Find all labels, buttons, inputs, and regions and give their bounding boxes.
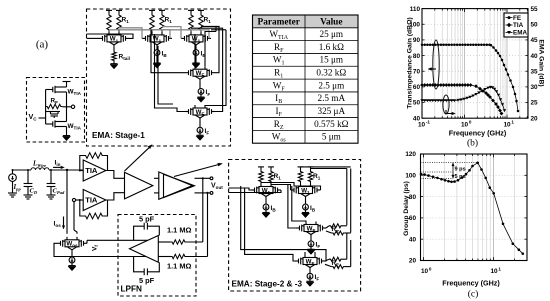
svg-text:50: 50 (413, 100, 421, 107)
arrow Iin (53, 166, 63, 168)
stage2 cellB load resistor right (308, 170, 312, 184)
stage3 ff lower current source IF (309, 269, 311, 273)
chart b arrow to right axis (446, 110, 454, 114)
svg-text:10: 10 (418, 122, 426, 129)
svg-text:325 μA: 325 μA (317, 106, 345, 116)
svg-text:EMA: Stage-2 & -3: EMA: Stage-2 & -3 (232, 280, 303, 289)
chart b ellipse right-axis group (443, 95, 449, 114)
svg-text:TIA: TIA (85, 196, 98, 205)
stage1 cell1 diff pair W1 (99, 37, 103, 39)
chart b legend (504, 13, 528, 37)
svg-text:Group Delay (ps): Group Delay (ps) (403, 181, 410, 236)
svg-text:1: 1 (511, 120, 514, 125)
svg-text:70: 70 (413, 68, 421, 75)
capacitor CD (27, 170, 29, 184)
wire VC (39, 117, 46, 119)
chart b axes ticks (421, 115, 423, 118)
chart c dotted line min (421, 178, 454, 180)
EMA Stage-2 dashed box (229, 160, 361, 292)
svg-text:80: 80 (409, 194, 417, 201)
LPFN amp triangle (130, 236, 159, 263)
stage1 ff pair WF2 (185, 111, 189, 113)
current source Ipp (12, 170, 14, 174)
svg-text:50: 50 (531, 21, 539, 28)
chart c ylabel (403, 181, 410, 236)
chart b ellipse left-axis group (433, 40, 439, 89)
TIA cell output node wire (62, 106, 71, 108)
output buffer inner triangle (164, 174, 195, 197)
main amp triangle (125, 172, 153, 199)
svg-text:80: 80 (413, 53, 421, 60)
stage3 ff pair WF lower (295, 260, 299, 262)
stage2 cellB VDD stubs (298, 166, 304, 168)
svg-text:25: 25 (531, 100, 539, 107)
LPFN dashed box (118, 215, 196, 297)
svg-text:5 pF: 5 pF (139, 276, 155, 285)
LPFN input wire top (158, 241, 170, 243)
chart c axes ticks (423, 257, 425, 260)
svg-text:5 pF: 5 pF (139, 215, 155, 224)
Wos current source (71, 251, 73, 257)
stage1 ff1 ground (200, 94, 202, 97)
svg-text:0: 0 (429, 266, 432, 271)
chart b ylabel right (538, 39, 545, 86)
stage1 bus cell2-cell3 (162, 27, 181, 39)
TIA cell gate bus wire (45, 90, 47, 125)
wire Ios vertical (66, 170, 68, 234)
TIA cell feedback transistor (48, 111, 60, 113)
node junction input (66, 169, 68, 171)
stage1 cell3 ground (195, 56, 197, 64)
wire Vout bottom (195, 192, 211, 194)
input terminal bottom TIA (72, 198, 75, 201)
stage1 cell2 load resistor right (160, 13, 164, 32)
stage1 cell1 VDD stubs (106, 9, 112, 11)
TIA cell output terminal (71, 105, 74, 108)
stage2 bus A-B (271, 185, 291, 191)
arrow to Stage-1 box (125, 146, 152, 171)
stage1 cell3 load resistor left (189, 13, 193, 32)
Wos ground (71, 263, 73, 266)
stage2 cellB to ff wires (288, 185, 296, 229)
stage1 cell3 diff pair W1 (181, 37, 185, 39)
svg-text:30: 30 (531, 84, 539, 91)
svg-text:Value: Value (320, 18, 342, 28)
stage1 cell1 ground (113, 63, 115, 64)
svg-text:60: 60 (413, 84, 421, 91)
ground under CD (24, 194, 33, 196)
svg-text:120: 120 (405, 151, 416, 158)
stage3 ff pair WF upper (296, 227, 300, 229)
svg-text:0.32 kΩ: 0.32 kΩ (316, 68, 346, 78)
label Vf (92, 245, 100, 251)
stage2 cellB current source IB (305, 198, 307, 204)
stage1 ff vertical wire b (155, 34, 186, 112)
stage1 resistor Rtail (113, 46, 115, 50)
svg-text:1: 1 (498, 266, 501, 271)
chart b curve FE (422, 45, 518, 111)
resistor 1.1Mohm bottom (171, 254, 187, 258)
chart b arrow to left axis (430, 68, 437, 70)
svg-text:25 μm: 25 μm (320, 29, 344, 39)
TIA cell PMOS W_TIA top (46, 89, 53, 91)
svg-text:9 ps: 9 ps (455, 167, 466, 173)
feedback resistor top TIA (80, 156, 84, 171)
svg-text:1.6 kΩ: 1.6 kΩ (319, 42, 344, 52)
wire main amp outputs (154, 177, 159, 179)
stage1 ff1 current source IF (199, 81, 201, 89)
stage1 cell1 load resistor left (107, 13, 111, 32)
svg-text:EMA: Stage-1: EMA: Stage-1 (92, 131, 145, 140)
svg-text:Frequency (GHz): Frequency (GHz) (442, 278, 500, 287)
wire TIA top out (106, 171, 125, 179)
chart b curve TIA (422, 85, 502, 114)
svg-text:35: 35 (531, 68, 539, 75)
LPFN bottom capacitor 5pF (134, 257, 145, 272)
stage2 cellA diff pair W1 (251, 189, 255, 191)
svg-text:5 μm: 5 μm (322, 132, 341, 142)
stage1 ff vertical wire a (151, 30, 185, 73)
svg-text:Frequency (GHz): Frequency (GHz) (449, 129, 507, 138)
svg-text:40: 40 (531, 53, 539, 60)
stage2 cellA load resistor left (259, 170, 263, 184)
resistor RZ upper pair (326, 226, 329, 228)
svg-text:10: 10 (503, 122, 511, 129)
wire Vf top to Wos gate (87, 239, 149, 241)
chart b frame (422, 9, 528, 119)
svg-text:40: 40 (409, 236, 417, 243)
stage2 cellA load resistor right (269, 170, 273, 184)
arrow Ios (63, 217, 65, 228)
chart b curve EMA (422, 87, 505, 110)
svg-text:100: 100 (405, 173, 416, 180)
wire Vout top to LPFN (202, 178, 204, 242)
svg-text:20: 20 (409, 258, 417, 265)
svg-text:15 μm: 15 μm (320, 55, 344, 65)
svg-text:0: 0 (469, 120, 472, 125)
svg-text:0.575 kΩ: 0.575 kΩ (314, 119, 349, 129)
stage1 ff vertical wire c (158, 46, 173, 104)
wire input rail (13, 169, 32, 171)
TIA cell dashed box (27, 78, 85, 143)
resistor RF (46, 104, 63, 108)
svg-text:(b): (b) (467, 138, 478, 149)
offset pair Wos (57, 242, 61, 244)
stage2 input wires (229, 188, 251, 190)
svg-text:-1: -1 (426, 120, 431, 125)
stage1 bus cell1-cell2 (119, 28, 142, 39)
arrow to Stage-2 box (174, 164, 221, 177)
svg-text:2.5 μm: 2.5 μm (318, 80, 344, 90)
stage1 cell3 VDD stubs (188, 9, 194, 11)
resistor RZ lower pair (325, 259, 329, 261)
stage2 cellA ground (265, 210, 267, 213)
stage1 cell2 current source IB (156, 46, 158, 49)
stage3 ff upper current source IF (310, 236, 312, 241)
chart c curve group delay (421, 163, 523, 254)
stage2 right vertical wires (346, 169, 348, 226)
chart c frame (421, 154, 528, 261)
svg-text:90: 90 (413, 37, 421, 44)
svg-text:55: 55 (531, 6, 539, 13)
TIA cell VDD rail (63, 81, 71, 83)
svg-text:20: 20 (531, 115, 539, 122)
stage1 input wire bottom (87, 37, 100, 39)
chart c dotted line peak (421, 162, 478, 164)
chart c annotation arrows (452, 163, 454, 179)
svg-text:EMA: EMA (513, 30, 527, 37)
chart c dotted line mid (421, 171, 454, 173)
svg-text:TIA: TIA (513, 22, 524, 29)
stage2 cellA current source IB (265, 198, 267, 204)
feedback resistor bottom TIA (80, 200, 84, 216)
svg-text:45: 45 (531, 37, 539, 44)
svg-text:EMA Gain (dB): EMA Gain (dB) (538, 39, 545, 86)
TIA cell ground (66, 133, 68, 136)
svg-text:10: 10 (421, 268, 429, 275)
wire TIA bottom out (106, 193, 125, 200)
inductor LWire (31, 168, 49, 170)
svg-text:60: 60 (409, 215, 417, 222)
wire Vout bottom to LPFN (207, 193, 209, 257)
output buffer outer triangle (159, 172, 193, 199)
stage3 ff lower ground (309, 279, 311, 281)
stage1 ff2 current source IF (199, 120, 201, 128)
svg-text:Transimpedance Gain (dBΩ): Transimpedance Gain (dBΩ) (407, 17, 414, 109)
stage2 cellB diff pair W1 (291, 189, 295, 191)
svg-text:1.1 MΩ: 1.1 MΩ (167, 226, 191, 235)
TIA amp top (83, 160, 106, 181)
svg-text:2.5 mA: 2.5 mA (318, 93, 346, 103)
LPFN input wire bottom (158, 256, 170, 258)
stage1 right vertical wires (201, 26, 219, 72)
resistor 1.1Mohm top (171, 240, 187, 244)
LPFN top capacitor 5pF (134, 226, 145, 240)
stage1 cell2 ground (156, 56, 158, 64)
stage1 ff2 ground (199, 133, 201, 135)
ground under CPad (47, 194, 56, 196)
stage1 cell1 load resistor right (117, 13, 121, 32)
stage2 ff lower drain wire (304, 252, 306, 255)
stage1 cell2 VDD stubs (149, 9, 155, 11)
stage2 cellB ground (305, 210, 307, 213)
svg-text:(c): (c) (468, 289, 479, 300)
parameter table (253, 15, 359, 28)
stage1 ff pair WF1 (185, 72, 189, 74)
capacitor CPad (50, 170, 52, 184)
terminal Vout bottom (210, 192, 213, 195)
TIA amp bottom (83, 190, 106, 211)
stage1 cell3 load resistor right (199, 13, 203, 32)
wire terminal to TIA bottom (76, 199, 84, 201)
terminal Vout top (210, 177, 213, 180)
svg-text:110: 110 (410, 6, 421, 13)
stage1 cell3 current source IB (195, 46, 197, 49)
chart c gridlines (444, 154, 446, 261)
svg-text:(a): (a) (36, 39, 49, 51)
stage2 cellA VDD stubs (258, 166, 264, 168)
wire rail to TIA top (80, 170, 83, 172)
ground under Ipp (8, 192, 17, 194)
chart b ylabel left (407, 17, 414, 109)
stage1 ff1 drain wires (194, 34, 196, 66)
stage2 cellB load resistor left (298, 170, 302, 184)
stage1 cell2 load resistor left (150, 13, 154, 32)
stage1 input wire top (87, 34, 134, 38)
svg-text:1.1 MΩ: 1.1 MΩ (167, 262, 191, 271)
stage2 wrap wires left (241, 186, 326, 261)
svg-text:LPFN: LPFN (121, 285, 142, 294)
wire Vf bottom wrap (54, 243, 147, 256)
chart b gridlines (434, 9, 436, 119)
svg-text:10: 10 (490, 268, 498, 275)
svg-text:Parameter: Parameter (258, 18, 300, 28)
svg-text:FE: FE (513, 15, 521, 22)
stage1 cell2 diff pair W1 (142, 37, 146, 39)
wire Vout top (195, 177, 211, 179)
TIA cell NMOS W_TIA bottom (46, 123, 53, 125)
wire to Wos right drain (73, 202, 75, 230)
svg-text:10: 10 (461, 122, 469, 129)
EMA Stage-1 dashed box (87, 9, 231, 146)
stage3 ff upper ground (310, 247, 312, 250)
svg-text:TIA: TIA (85, 166, 98, 175)
